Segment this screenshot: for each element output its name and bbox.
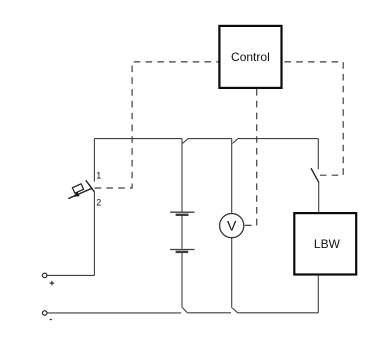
- svg-text:V: V: [227, 218, 237, 234]
- terminal minus: [42, 311, 47, 316]
- breaker release rectangle: [72, 184, 83, 193]
- label minus: [50, 319, 52, 321]
- terminal plus: [42, 273, 47, 278]
- svg-text:1: 1: [96, 171, 101, 181]
- wire battery branch upper: [181, 139, 183, 212]
- wire battery branch lower: [181, 252, 183, 307]
- wire bottom rail from minus terminal: [47, 312, 181, 314]
- wire from plus terminal: [47, 274, 94, 276]
- svg-text:LBW: LBW: [314, 237, 341, 251]
- wire top rail right segment: [238, 138, 319, 140]
- wire top rail left segment: [94, 138, 181, 140]
- wire LBW bottom to bottom rail: [317, 276, 319, 313]
- wire bottom rail middle segment: [187, 312, 231, 314]
- wire top rail middle segment: [188, 138, 232, 140]
- control line right: Control to switch: [281, 62, 343, 175]
- battery B1 cell 1 negative plate: [176, 214, 189, 216]
- wire voltmeter branch upper: [231, 139, 233, 214]
- wire voltmeter branch lower: [231, 238, 233, 308]
- breaker lever with tail: [68, 189, 91, 199]
- wire bottom rail right segment: [237, 312, 318, 314]
- block LBW box: [294, 213, 356, 274]
- corner chamfer battery branch bottom: [182, 308, 187, 313]
- svg-text:2: 2: [96, 198, 101, 208]
- switch S1 blade: [311, 168, 319, 182]
- control line bottom: Control to voltmeter: [244, 89, 257, 225]
- battery B1 cell 2 negative plate: [176, 251, 189, 253]
- wire left vertical to breaker pin 1: [93, 139, 95, 182]
- wire switch to LBW top: [318, 183, 320, 212]
- battery B1 cell 1 positive plate: [170, 211, 194, 213]
- corner chamfer voltmeter branch bottom: [232, 308, 237, 313]
- wire breaker pin 2 down to plus-terminal junction: [93, 192, 95, 276]
- block Control box: [219, 26, 281, 88]
- breaker arrowhead: [73, 192, 80, 197]
- corner chamfer battery branch top: [183, 139, 188, 144]
- wire battery branch middle: [181, 215, 183, 249]
- svg-text:Control: Control: [231, 50, 270, 64]
- control line left: Control to breaker: [95, 62, 219, 188]
- breaker Q1 blade: [86, 180, 95, 192]
- label plus: [50, 281, 55, 285]
- voltmeter V1 circle: [220, 214, 244, 238]
- battery B1 cell 2 positive plate: [170, 249, 194, 251]
- corner chamfer voltmeter branch top: [233, 139, 238, 144]
- wire right vertical to switch: [317, 139, 319, 170]
